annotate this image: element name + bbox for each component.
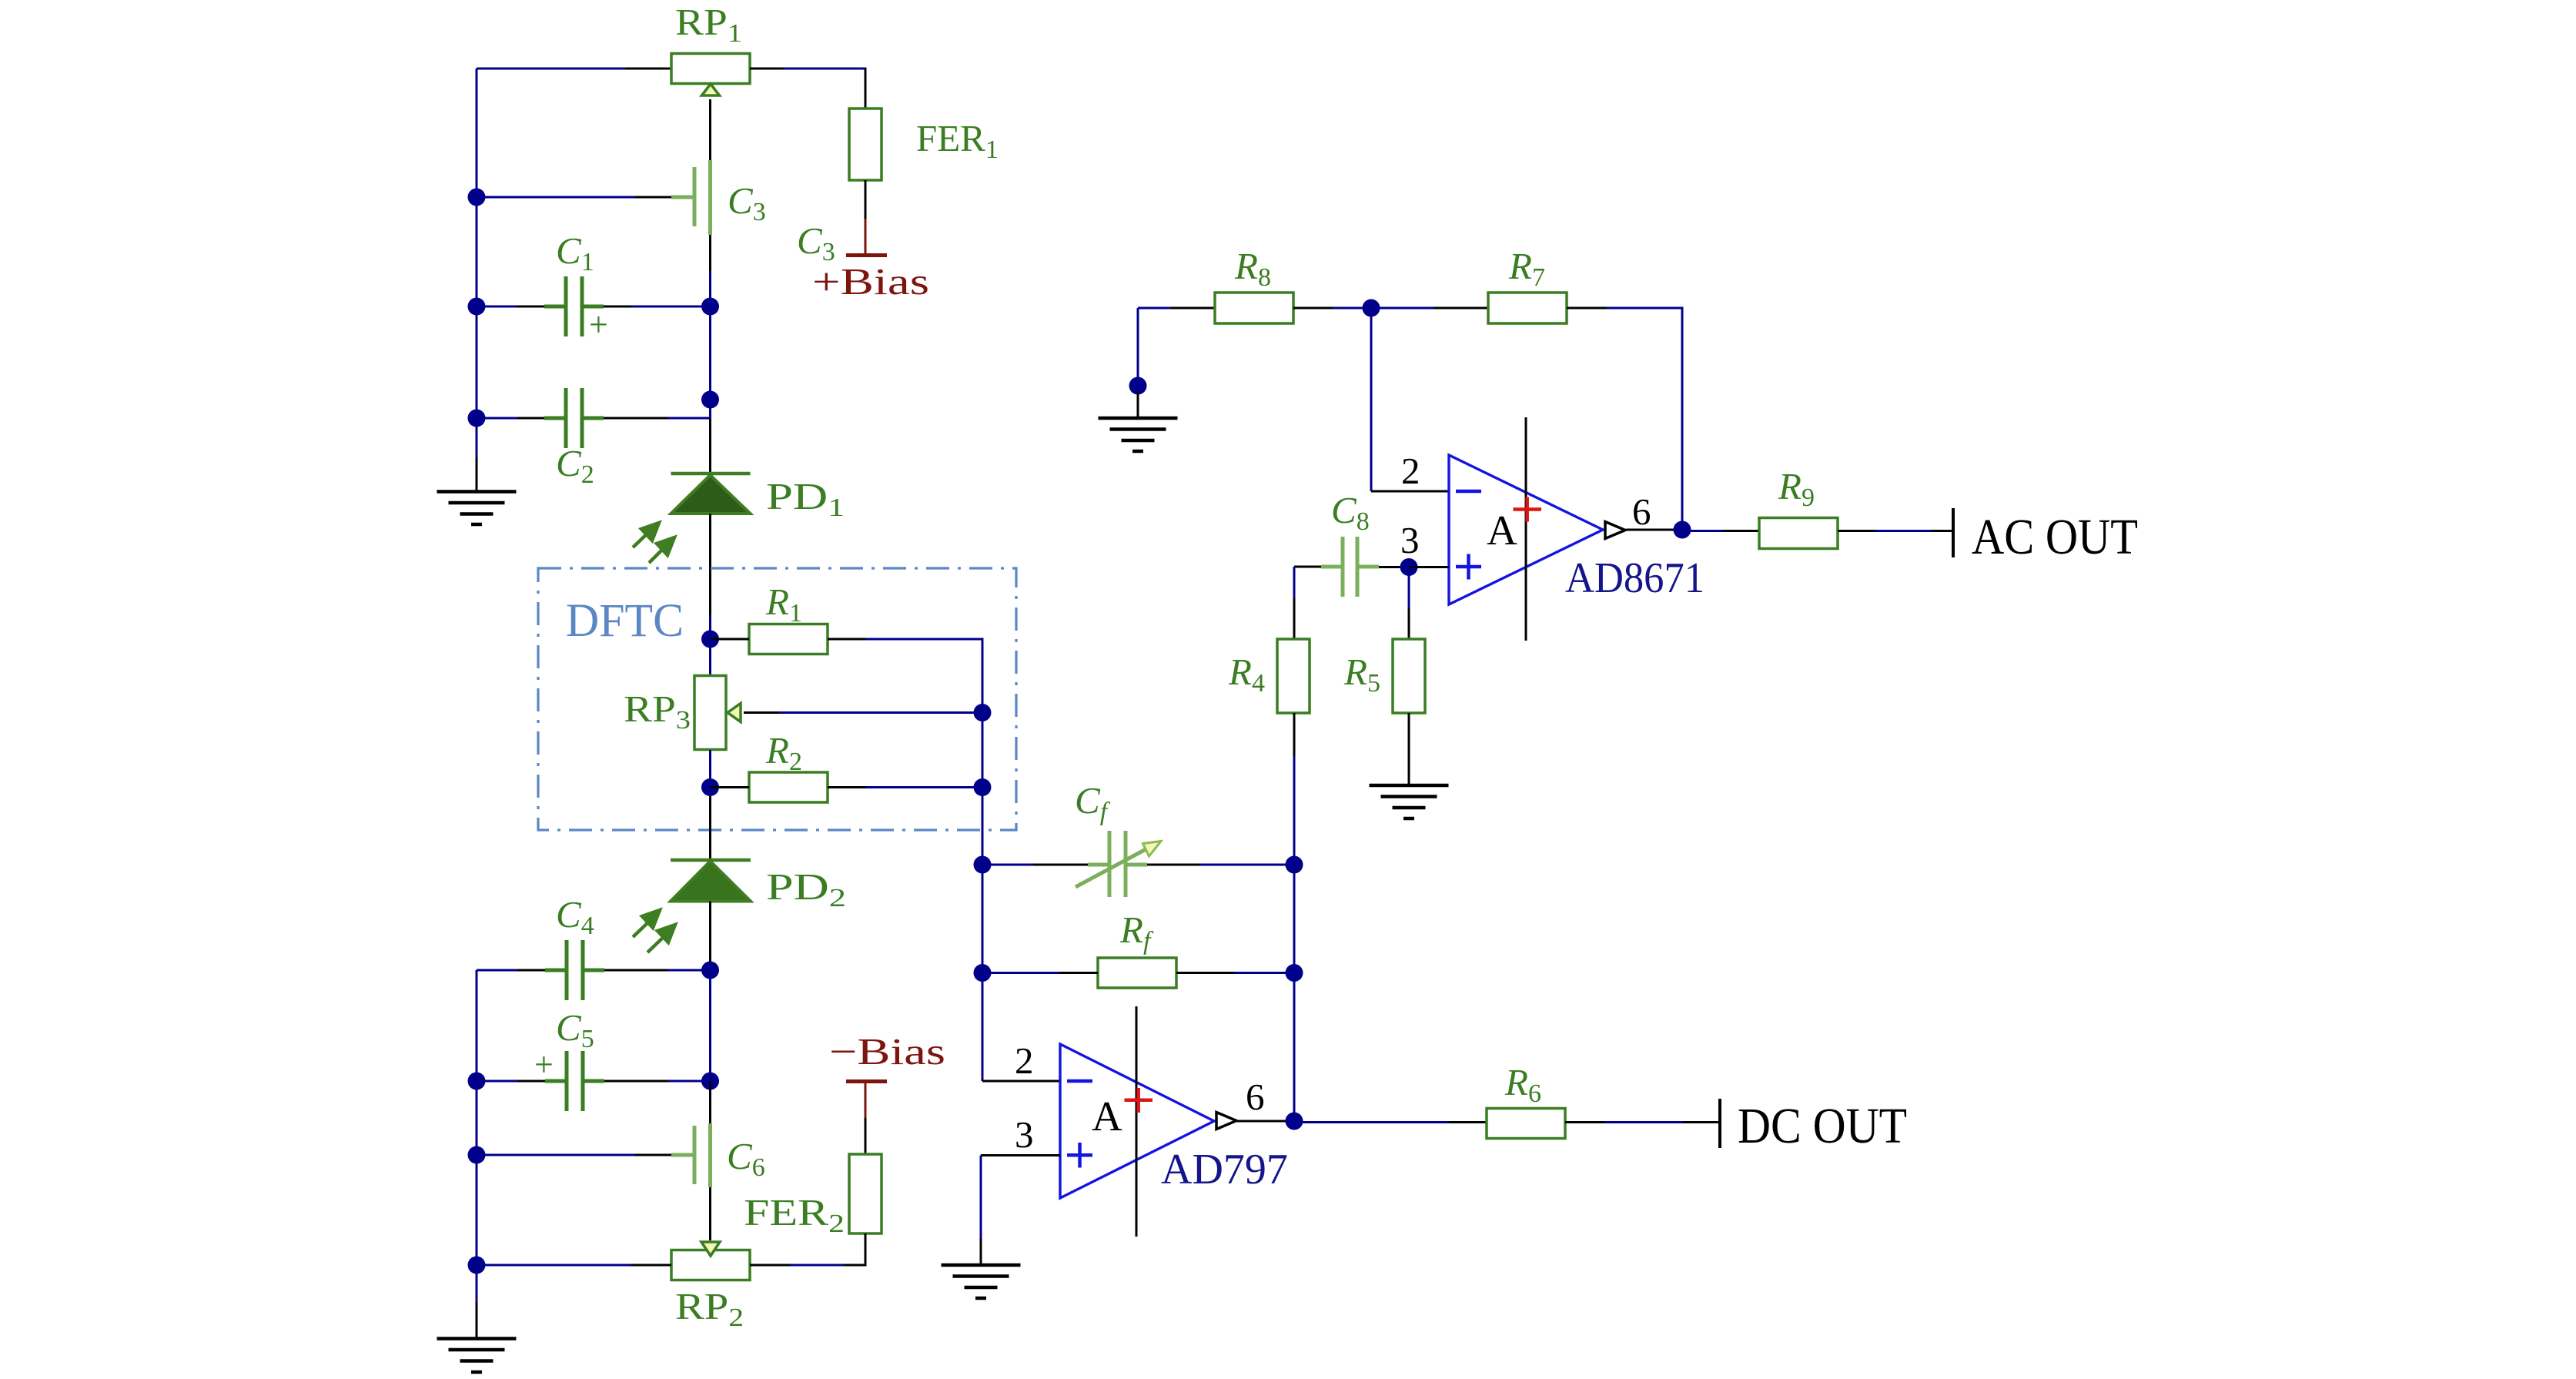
op-amp U2 power line xyxy=(1136,1006,1138,1237)
DFTC dashed enclosure xyxy=(538,568,1016,830)
node dot C6 left xyxy=(468,1146,486,1164)
svg-text:A: A xyxy=(1092,1093,1122,1140)
node dot AD8671 output xyxy=(1674,521,1691,539)
wire FER2 down to RP2 row xyxy=(865,1233,867,1265)
svg-text:+: + xyxy=(534,1046,554,1083)
wire C1 row xyxy=(477,306,711,308)
op-amp U1 output buffer xyxy=(1605,522,1625,539)
wire C6 feed xyxy=(477,1154,671,1156)
-Bias supply bar xyxy=(846,1079,887,1083)
node dot C5 left xyxy=(468,1073,486,1090)
wire center C5 to C6 to RP2 xyxy=(709,1081,711,1240)
wire center vertical C3 to C1 xyxy=(709,235,711,400)
wire RP1 wiper down xyxy=(709,99,711,160)
wire left rail vertical xyxy=(476,69,478,491)
svg-text:6: 6 xyxy=(1246,1076,1265,1118)
svg-text:2: 2 xyxy=(1401,450,1420,492)
potentiometer RP1 xyxy=(671,54,750,96)
label R7 xyxy=(1508,245,1545,292)
wire output to R6 xyxy=(1294,1121,1487,1123)
capacitor C8 xyxy=(1321,537,1379,597)
op-amp U2 supply plus xyxy=(1125,1088,1153,1113)
label R4 xyxy=(1228,651,1265,698)
wire junction to R7 xyxy=(1371,307,1488,310)
label AC OUT xyxy=(1972,509,2138,565)
photodiode PD2 xyxy=(671,860,751,902)
label C8 xyxy=(1331,489,1370,536)
op-amp U1 letter A xyxy=(1487,507,1517,554)
svg-text:−Bias: −Bias xyxy=(829,1030,945,1073)
label C1 xyxy=(556,229,594,276)
wire R1 row xyxy=(711,638,984,641)
terminal DC OUT xyxy=(1718,1099,1721,1148)
svg-text:2: 2 xyxy=(1015,1039,1034,1082)
terminal AC OUT xyxy=(1952,508,1955,557)
svg-text:AD797: AD797 xyxy=(1161,1146,1288,1193)
wire top rail horizontal left xyxy=(477,68,671,70)
node dot rail C1 left xyxy=(468,298,486,316)
label AD8671 xyxy=(1565,554,1705,602)
wire C2 row xyxy=(477,417,711,420)
node dot Cf right xyxy=(1286,856,1303,874)
label pin 3 (AD8671) xyxy=(1400,519,1420,561)
wire R8 to junction xyxy=(1293,307,1371,310)
wire R2 row xyxy=(711,786,983,788)
label Rf xyxy=(1119,909,1154,956)
label C4 xyxy=(556,893,594,940)
wire pin2 (AD797) xyxy=(982,1080,1060,1083)
svg-text:3: 3 xyxy=(1015,1113,1034,1156)
wire C8 to pin3 node xyxy=(1379,566,1409,568)
wire R7 right corner down xyxy=(1567,308,1684,522)
wire output to R9 xyxy=(1682,530,1759,532)
svg-text:6: 6 xyxy=(1632,490,1651,533)
op-amp U2 letter A xyxy=(1092,1093,1122,1140)
label C6 xyxy=(727,1135,765,1182)
label C5 xyxy=(556,1006,594,1053)
potentiometer RP3 xyxy=(694,676,741,750)
svg-text:AD8671: AD8671 xyxy=(1565,554,1705,602)
potentiometer RP2 xyxy=(671,1242,750,1280)
label AD797 xyxy=(1161,1146,1288,1193)
wire RP1 right to corner xyxy=(750,68,867,70)
node dot R2 left xyxy=(701,778,719,796)
node dot RP3 wiper right xyxy=(974,704,992,721)
wire right vertical R1 to pin2 xyxy=(982,639,984,1081)
capacitor C1 xyxy=(544,276,608,343)
label pin 2 (AD797) xyxy=(1015,1039,1034,1082)
wire Cf row xyxy=(982,864,1294,866)
label +Bias xyxy=(812,260,929,303)
resistor R8 xyxy=(1215,293,1293,323)
ground (bottom left) xyxy=(437,1339,517,1373)
resistor R6 xyxy=(1487,1109,1565,1139)
node dot C5 right xyxy=(701,1073,719,1090)
wire R6 to DC terminal xyxy=(1565,1121,1720,1123)
wire center C4 to C5 xyxy=(709,970,711,1081)
node dot Rf left xyxy=(974,964,992,982)
resistor Rf xyxy=(1098,958,1176,988)
op-amp U2 plus xyxy=(1067,1143,1092,1168)
light arrows PD2 xyxy=(633,910,675,952)
wire center RP3 to R2 xyxy=(709,750,711,788)
label -Bias xyxy=(829,1030,945,1073)
label R6 xyxy=(1504,1061,1541,1108)
label pin 6 (AD8671) xyxy=(1632,490,1651,533)
label pin 3 (AD797) xyxy=(1015,1113,1034,1156)
node dot Cf left xyxy=(974,856,992,874)
svg-text:DFTC: DFTC xyxy=(566,595,684,647)
node dot C4 right xyxy=(701,962,719,979)
node dot AD797 output xyxy=(1286,1113,1303,1130)
capacitor C6 xyxy=(671,1123,711,1187)
capacitor C4 xyxy=(545,940,604,1000)
svg-text:AC OUT: AC OUT xyxy=(1972,509,2138,565)
label R8 xyxy=(1234,245,1271,292)
wire C8 corner to R4 xyxy=(1294,567,1321,639)
wire node to R5 xyxy=(1408,567,1410,640)
wire center C2 to PD1 xyxy=(709,400,711,474)
label C3 (bias) xyxy=(797,219,835,266)
node dot rail C3 level xyxy=(468,189,486,206)
resistor R2 xyxy=(749,772,828,802)
resistor R1 xyxy=(749,624,828,654)
node dot R8 R7 junction xyxy=(1363,300,1380,317)
wire RP2 row left xyxy=(477,1264,671,1267)
capacitor Cf (variable) xyxy=(1076,831,1161,897)
node dot pin3 (AD8671) xyxy=(1400,558,1418,576)
node dot RP2 left xyxy=(468,1257,486,1274)
wire output to node (AD797) xyxy=(1237,1120,1294,1123)
wire FER1 to bias xyxy=(865,180,867,255)
ground (R8) xyxy=(1099,418,1178,451)
label C3 xyxy=(728,179,766,226)
node dot rail C2 left xyxy=(468,410,486,427)
ground (R5) xyxy=(1370,785,1449,818)
svg-text:+: + xyxy=(589,306,608,343)
label R5 xyxy=(1343,651,1380,698)
wire PD2 down xyxy=(709,902,711,971)
op-amp U1 minus xyxy=(1456,490,1481,494)
capacitor C5 xyxy=(534,1046,604,1111)
wire PD1 down xyxy=(709,514,711,639)
node dot R2 right xyxy=(974,778,992,796)
op-amp U1 AD8671 xyxy=(1449,455,1603,604)
label Cf xyxy=(1075,779,1111,826)
+Bias supply bar xyxy=(846,253,887,257)
label RP1 xyxy=(675,1,742,48)
op-amp U1 power line xyxy=(1525,417,1527,641)
svg-text:DC OUT: DC OUT xyxy=(1738,1098,1907,1154)
label R1 xyxy=(765,581,802,628)
label pin 2 (AD8671) xyxy=(1401,450,1420,492)
wire RP3 wiper to right vertical xyxy=(744,711,982,714)
wire R5 to ground xyxy=(1408,713,1410,785)
wire corner down to FER1 xyxy=(865,69,867,109)
node dot R1 left xyxy=(701,631,719,648)
wire C3 feed from rail xyxy=(477,196,671,199)
photodiode PD1 xyxy=(671,474,751,514)
wire R9 to AC terminal xyxy=(1838,530,1953,532)
node dot center above C2 xyxy=(701,391,719,409)
wire output to node xyxy=(1626,529,1682,531)
wire C4 row xyxy=(477,969,711,972)
wire junction down to pin2 xyxy=(1371,308,1449,491)
wire pin3 corner (AD797) xyxy=(981,1156,1060,1266)
label pin 6 (AD797) xyxy=(1246,1076,1265,1118)
label C2 xyxy=(556,442,594,489)
svg-text:3: 3 xyxy=(1400,519,1420,561)
ferrite bead FER1 xyxy=(849,109,882,180)
svg-text:A: A xyxy=(1487,507,1517,554)
svg-text:+Bias: +Bias xyxy=(812,260,929,303)
label R2 xyxy=(765,729,802,776)
wire -Bias to FER2 xyxy=(865,1082,867,1155)
capacitor C2 xyxy=(544,388,604,448)
label PD2 xyxy=(766,865,846,912)
ground (left rail) xyxy=(437,492,517,525)
ferrite bead FER2 xyxy=(849,1154,882,1233)
node dot C1 right xyxy=(701,298,719,316)
label FER1 xyxy=(916,117,999,164)
op-amp U2 minus xyxy=(1067,1079,1092,1083)
ground (AD797 pin3) xyxy=(942,1265,1021,1298)
light arrows PD1 xyxy=(633,523,674,563)
wire Rf row xyxy=(982,972,1294,974)
wire center R1 to RP3 xyxy=(709,639,711,750)
resistor R9 xyxy=(1759,518,1838,549)
resistor R7 xyxy=(1488,293,1567,323)
resistor R4 xyxy=(1277,639,1310,713)
op-amp U2 output buffer xyxy=(1216,1113,1236,1130)
node dot Rf right xyxy=(1286,964,1303,982)
wire R8 left corner xyxy=(1138,308,1215,377)
label RP2 xyxy=(675,1285,744,1332)
op-amp U2 AD797 xyxy=(1060,1044,1214,1198)
label R9 xyxy=(1778,465,1815,512)
label RP3 xyxy=(624,688,691,735)
label FER2 xyxy=(744,1191,845,1238)
wire C5 row xyxy=(477,1080,711,1083)
wire left rail bottom vertical xyxy=(476,970,478,1338)
op-amp U1 plus xyxy=(1456,554,1481,580)
resistor R5 xyxy=(1393,639,1425,713)
wire RP2 row right xyxy=(750,1264,867,1267)
wire dot to ground xyxy=(1137,392,1139,418)
capacitor C3 xyxy=(671,160,711,235)
wire center R2 to PD2 xyxy=(709,796,711,860)
wire pin3 xyxy=(1409,566,1449,568)
node dot R8 ground xyxy=(1129,377,1147,395)
op-amp U1 supply plus xyxy=(1514,497,1542,522)
wire R4 down to output vertical xyxy=(1293,713,1296,1121)
label DC OUT xyxy=(1738,1098,1907,1154)
label DFTC xyxy=(566,595,684,647)
label PD1 xyxy=(766,475,845,522)
